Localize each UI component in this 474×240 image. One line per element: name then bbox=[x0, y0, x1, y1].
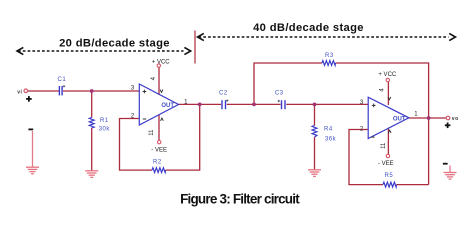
svg-text:OUT: OUT bbox=[161, 103, 174, 109]
U1 +VCC bbox=[157, 64, 160, 67]
svg-text:C3: C3 bbox=[275, 91, 284, 97]
wire R1 bottom stub to ground bbox=[91, 128, 93, 171]
svg-text:R2: R2 bbox=[153, 159, 162, 165]
op-amp U1 bbox=[131, 76, 188, 135]
junction U2 output/R3/R5 bbox=[427, 116, 431, 120]
resistor R2 bbox=[152, 159, 166, 172]
wire C3 to op-amp U2 pin3 bbox=[286, 103, 368, 105]
junction U1 output/R2 bbox=[198, 103, 202, 107]
resistor R1 bbox=[89, 118, 110, 133]
ground (R4) bbox=[308, 170, 321, 177]
svg-text:Figure 3: Filter circuit: Figure 3: Filter circuit bbox=[180, 192, 300, 207]
wire R4 bottom stub to ground bbox=[314, 137, 316, 170]
wire input minus stub (pink) bbox=[32, 131, 34, 167]
svg-text:R5: R5 bbox=[385, 173, 394, 179]
wire vi to C1 bbox=[28, 90, 60, 92]
junction C2/C3/R3 bbox=[252, 103, 256, 107]
wires (red) bbox=[28, 63, 447, 185]
wire U1 output to C2 bbox=[179, 103, 222, 105]
resistor R4 bbox=[312, 126, 337, 143]
wire U2 VEE stub bbox=[387, 128, 389, 155]
wire R5 right segment bbox=[397, 184, 429, 186]
svg-text:C1: C1 bbox=[58, 77, 67, 83]
wire U1 VCC stub bbox=[158, 68, 160, 96]
wire C2 to C3 bbox=[227, 103, 281, 105]
capacitor C3 bbox=[275, 91, 286, 110]
svg-text:+ VCC: + VCC bbox=[152, 59, 171, 65]
wire C1 to op-amp U1 pin3 bbox=[63, 90, 139, 92]
svg-text:36k: 36k bbox=[325, 136, 337, 142]
wire U2 VCC stub bbox=[387, 82, 389, 105]
svg-text:R3: R3 bbox=[325, 53, 334, 59]
svg-text:- VEE: - VEE bbox=[151, 148, 167, 154]
wire R4 top stub bbox=[314, 104, 316, 125]
wire R2 right to output node bbox=[166, 104, 200, 170]
terminal vo bbox=[446, 116, 450, 120]
wire U2 output to vo bbox=[409, 117, 446, 119]
svg-text:vi: vi bbox=[17, 89, 22, 95]
U2 -VEE bbox=[386, 154, 389, 157]
svg-text:OUT: OUT bbox=[393, 117, 406, 123]
resistor R5 bbox=[383, 173, 397, 187]
input minus sign bbox=[28, 128, 33, 130]
svg-text:R1: R1 bbox=[100, 118, 109, 124]
wire output minus stub (pink) bbox=[449, 166, 451, 173]
resistor R3 bbox=[322, 53, 336, 65]
ground (output) bbox=[444, 173, 457, 180]
svg-text:- VEE: - VEE bbox=[378, 161, 394, 167]
wire R3 top-right segment and right vertical down bbox=[336, 63, 429, 185]
svg-text:40 dB/decade stage: 40 dB/decade stage bbox=[253, 22, 364, 34]
output plus sign bbox=[445, 123, 451, 129]
input plus sign bbox=[26, 96, 32, 102]
terminal vi bbox=[24, 89, 28, 93]
svg-text:30k: 30k bbox=[99, 127, 111, 133]
wire R3 loop: up, top-left segment bbox=[254, 63, 322, 104]
wire U1 VEE stub bbox=[158, 115, 160, 141]
annotation: 40 dB/decade stage dashed arrow bbox=[198, 33, 456, 40]
U2 +VCC bbox=[386, 78, 389, 81]
U1 -VEE bbox=[158, 140, 161, 143]
svg-text:R4: R4 bbox=[324, 127, 333, 133]
wire U1 pin2 feedback left bbox=[120, 119, 153, 171]
ground (R1) bbox=[85, 171, 98, 178]
wire R1 top stub bbox=[91, 91, 93, 118]
annotation divider red line bbox=[194, 31, 196, 64]
capacitor C2 bbox=[219, 91, 228, 110]
op-amp U2 bbox=[360, 88, 418, 149]
junction R4 tap bbox=[313, 103, 317, 107]
svg-text:20 dB/decade stage: 20 dB/decade stage bbox=[59, 38, 170, 50]
ground (input) bbox=[26, 167, 39, 174]
wire U2 pin2 feedback left bbox=[349, 130, 383, 185]
annotation: 20 dB/decade stage dashed arrow bbox=[17, 47, 191, 54]
svg-text:C2: C2 bbox=[219, 91, 228, 97]
svg-text:11: 11 bbox=[381, 142, 387, 149]
svg-text:+ VCC: + VCC bbox=[378, 72, 397, 78]
junction C1/R1 bbox=[90, 89, 94, 93]
svg-text:vo: vo bbox=[452, 116, 459, 122]
output minus sign bbox=[443, 163, 448, 165]
svg-text:11: 11 bbox=[149, 129, 155, 136]
capacitor C1 bbox=[58, 77, 67, 95]
